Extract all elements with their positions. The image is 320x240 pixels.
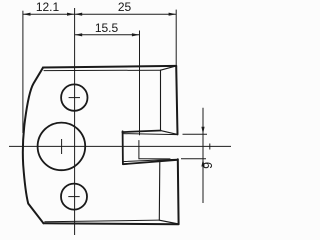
notch top slant [161, 131, 178, 135]
inner vertical above notch [160, 70, 162, 130]
9-dim vertical line [202, 108, 204, 203]
top edge front (thick) [43, 66, 176, 68]
bottom back thin [45, 220, 160, 222]
svg-text:15.5: 15.5 [95, 21, 119, 35]
top right slant [161, 66, 177, 70]
arrow 25 right [169, 13, 177, 16]
9-dim arrow up [201, 159, 204, 167]
notch bottom thick [123, 160, 178, 164]
left arc edge [23, 68, 44, 223]
bottom edge front thick [43, 223, 178, 224]
top edge back (thin) [44, 69, 161, 71]
right edge lower block [177, 159, 180, 224]
arrow 12.1 left [23, 13, 31, 16]
bottom hole center tick [68, 196, 79, 198]
arrow 15.5 left [75, 33, 83, 36]
horizontal centerline [9, 145, 231, 147]
extension line left (x=22.9) [22, 11, 24, 133]
dimension line 15.5 [75, 34, 140, 36]
dimension line 12.1 and 25 [23, 13, 176, 15]
top small hole [61, 84, 87, 110]
right edge upper block [176, 66, 177, 134]
inner vertical below notch [158, 161, 161, 220]
arrow 12.1 right [67, 13, 75, 16]
centerline tick [209, 144, 211, 150]
extension line right (x=176.2) [175, 10, 177, 66]
notch top thin [122, 134, 177, 135]
9-dim arrow down [201, 127, 204, 135]
large hole vertical tick [61, 139, 63, 154]
notch bottom thin [123, 159, 178, 161]
notch top thick [122, 131, 160, 133]
right side dimension 9 [181, 108, 210, 203]
9-dim extension line upper [183, 133, 208, 135]
bottom small hole [61, 184, 87, 210]
part outline [23, 66, 179, 224]
extension line 15.5 (x=139.5) [139, 31, 141, 136]
notch left edge [122, 131, 124, 164]
vertical centerline through holes [74, 8, 76, 235]
arrow 25 left [75, 13, 83, 16]
svg-text:25: 25 [118, 0, 132, 14]
large hole [38, 123, 86, 171]
svg-text:12.1: 12.1 [36, 0, 60, 14]
bottom right slant [159, 220, 178, 224]
arrow 15.5 right [132, 33, 140, 36]
notch back bottom thin [139, 158, 170, 160]
svg-text:9: 9 [201, 162, 215, 169]
holes [38, 84, 88, 209]
9-dim extension line lower [181, 158, 206, 160]
notch back left vertical [138, 141, 140, 159]
top hole center tick [69, 97, 80, 99]
